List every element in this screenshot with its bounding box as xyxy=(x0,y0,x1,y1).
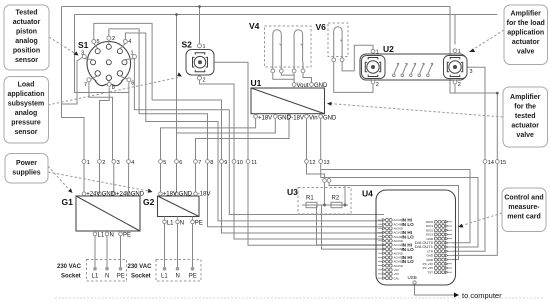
svg-text:+18V: +18V xyxy=(258,116,272,122)
svg-text:7: 7 xyxy=(198,160,201,166)
svg-text:U1: U1 xyxy=(251,78,262,88)
svg-text:Vout: Vout xyxy=(297,83,309,89)
svg-text:L1: L1 xyxy=(92,274,99,280)
svg-text:12: 12 xyxy=(309,160,315,166)
svg-text:2: 2 xyxy=(376,82,379,88)
svg-text:5: 5 xyxy=(97,39,100,45)
svg-text:GND: GND xyxy=(314,83,328,89)
svg-text:8: 8 xyxy=(112,85,115,91)
svg-text:PE: PE xyxy=(189,274,197,280)
svg-text:2: 2 xyxy=(203,78,206,84)
svg-text:4: 4 xyxy=(131,160,134,166)
svg-text:1: 1 xyxy=(131,51,134,57)
svg-text:IN LO: IN LO xyxy=(402,234,415,239)
svg-text:15: 15 xyxy=(500,160,506,166)
svg-text:N: N xyxy=(180,221,184,227)
svg-text:6: 6 xyxy=(179,160,182,166)
svg-text:TST: TST xyxy=(427,270,433,274)
svg-text:PE: PE xyxy=(123,233,131,239)
svg-text:230 VAC: 230 VAC xyxy=(128,264,153,270)
svg-text:IN LO: IN LO xyxy=(402,222,415,227)
svg-text:1: 1 xyxy=(87,160,90,166)
svg-text:6: 6 xyxy=(131,81,134,87)
svg-text:L1: L1 xyxy=(98,233,105,239)
svg-text:IN LO: IN LO xyxy=(402,247,415,252)
svg-text:N: N xyxy=(105,274,109,280)
svg-text:PE: PE xyxy=(117,274,125,280)
svg-text:11: 11 xyxy=(251,160,257,166)
svg-text:N: N xyxy=(176,274,180,280)
svg-text:-18V: -18V xyxy=(198,192,211,198)
svg-text:L1: L1 xyxy=(167,221,174,227)
svg-text:+24V: +24V xyxy=(86,192,100,198)
svg-text:2: 2 xyxy=(102,160,105,166)
svg-text:GND: GND xyxy=(179,192,193,198)
svg-text:S2: S2 xyxy=(182,40,193,50)
svg-text:GND: GND xyxy=(323,116,337,122)
svg-text:13: 13 xyxy=(324,160,330,166)
svg-text:G2: G2 xyxy=(143,197,155,207)
svg-text:L1: L1 xyxy=(161,274,168,280)
svg-text:to computer: to computer xyxy=(462,291,502,300)
svg-text:3: 3 xyxy=(81,51,84,57)
svg-text:4: 4 xyxy=(128,39,131,45)
svg-text:G1: G1 xyxy=(62,197,74,207)
svg-text:2: 2 xyxy=(112,36,115,42)
svg-text:3: 3 xyxy=(470,69,473,75)
svg-text:GND: GND xyxy=(278,116,292,122)
svg-text:14: 14 xyxy=(488,160,494,166)
svg-text:GND: GND xyxy=(102,192,116,198)
svg-text:+18V: +18V xyxy=(163,192,177,198)
svg-text:CAL: CAL xyxy=(394,276,400,280)
svg-text:230 VAC: 230 VAC xyxy=(57,264,82,270)
svg-text:R1: R1 xyxy=(306,196,314,202)
svg-text:+24V: +24V xyxy=(116,192,130,198)
svg-text:U2: U2 xyxy=(383,44,394,54)
svg-text:N: N xyxy=(110,233,114,239)
svg-text:-18V: -18V xyxy=(291,116,304,122)
svg-text:Socket: Socket xyxy=(131,274,151,280)
svg-text:1: 1 xyxy=(376,50,379,56)
svg-text:Control andmeasure-ment card: Control andmeasure-ment card xyxy=(504,195,543,221)
svg-text:2: 2 xyxy=(458,82,461,88)
svg-text:PE: PE xyxy=(195,221,203,227)
svg-text:V4: V4 xyxy=(249,21,260,31)
svg-text:USB: USB xyxy=(408,275,417,280)
svg-text:Socket: Socket xyxy=(61,274,81,280)
svg-text:5: 5 xyxy=(163,160,166,166)
svg-text:1: 1 xyxy=(458,49,461,55)
svg-text:IN LO: IN LO xyxy=(402,259,415,264)
svg-text:10: 10 xyxy=(237,160,243,166)
svg-text:3: 3 xyxy=(117,160,120,166)
svg-text:S1: S1 xyxy=(78,40,89,50)
svg-text:8: 8 xyxy=(210,160,213,166)
svg-text:7: 7 xyxy=(84,82,87,88)
svg-text:R2: R2 xyxy=(332,196,340,202)
svg-text:Vin: Vin xyxy=(309,116,318,122)
svg-text:V6: V6 xyxy=(316,22,327,32)
svg-text:U4: U4 xyxy=(362,189,373,199)
svg-text:9: 9 xyxy=(224,160,227,166)
svg-text:U3: U3 xyxy=(287,187,298,197)
svg-text:1: 1 xyxy=(203,44,206,50)
